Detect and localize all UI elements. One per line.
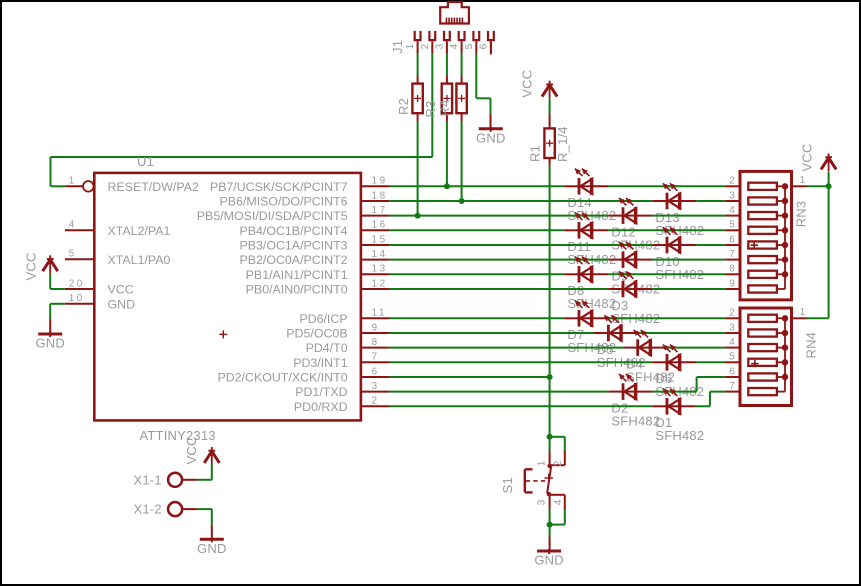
D2 name label bbox=[611, 400, 628, 415]
svg-text:VCC: VCC bbox=[184, 436, 199, 464]
junction PD2/S1 net bbox=[547, 374, 553, 380]
wire row D1 left bbox=[390, 405, 653, 407]
RN3 pin 3 stub bbox=[726, 200, 740, 202]
wire D1 cathode pin bbox=[679, 405, 696, 407]
RN4 internal junction 5 bbox=[782, 359, 788, 365]
RN3 pin number 3 bbox=[729, 190, 735, 201]
S1 lever bbox=[547, 464, 552, 497]
D2 value SFH482 bbox=[611, 413, 660, 428]
U1 pin 17 number bbox=[372, 205, 388, 216]
wire row D4 right bbox=[667, 347, 726, 349]
U1 pin label PB7/UCSK/SCK/PCINT7 bbox=[210, 180, 348, 194]
svg-text:PB0/AIN0/PCINT0: PB0/AIN0/PCINT0 bbox=[246, 283, 348, 297]
U1 pin label PB6/MISO/DO/PCINT6 bbox=[220, 195, 348, 209]
LED D7 bbox=[575, 301, 593, 327]
RN4 resistor element 7 bbox=[748, 388, 785, 395]
svg-text:17: 17 bbox=[372, 205, 388, 216]
U1 pin 8 number bbox=[372, 337, 380, 348]
RN4 pin number 1 bbox=[800, 307, 806, 318]
svg-text:3: 3 bbox=[537, 499, 548, 505]
D14 value SFH482 bbox=[567, 208, 616, 223]
D3 value SFH482 bbox=[611, 311, 660, 326]
RN3 internal junction 3 bbox=[782, 198, 788, 204]
J1 pin number 2 bbox=[420, 43, 431, 49]
RN4 internal junction 2 bbox=[782, 315, 788, 321]
U1 pin 15 stub bbox=[361, 244, 390, 246]
wire S1 bottom jog bbox=[550, 510, 565, 525]
U1 pin 19 number bbox=[372, 176, 388, 187]
svg-text:U1: U1 bbox=[137, 154, 154, 169]
U1 pin 2 number bbox=[372, 396, 380, 407]
J1 pin number 4 bbox=[449, 43, 460, 49]
svg-text:PD3/INT1: PD3/INT1 bbox=[293, 356, 348, 370]
U1 pin 14 number bbox=[372, 249, 388, 260]
U1 pin 16 stub bbox=[361, 229, 390, 231]
wire D4 anode pin bbox=[623, 347, 636, 349]
D1 name label bbox=[655, 415, 672, 430]
svg-text:16: 16 bbox=[372, 220, 388, 231]
S1 pin 2 bbox=[550, 451, 565, 466]
wire row D6 right bbox=[696, 361, 725, 363]
U1 pin 20 number bbox=[69, 278, 85, 289]
U1 pin label PD6/ICP bbox=[299, 312, 347, 326]
wire J1-5 to GND bbox=[476, 53, 490, 127]
U1 pin 14 stub bbox=[361, 259, 390, 261]
RN3 pin 4 stub bbox=[726, 215, 740, 217]
wire RN4 pin1 to VCC rail bbox=[807, 186, 829, 318]
U1 pin label GND bbox=[108, 297, 136, 311]
svg-text:4: 4 bbox=[69, 220, 77, 231]
RN3 resistor element 9 bbox=[748, 285, 785, 292]
wire D2 to RN4 pin6 staircase bbox=[652, 377, 725, 392]
svg-text:4: 4 bbox=[729, 337, 735, 348]
U1 pin 13 number bbox=[372, 264, 388, 275]
wire D1 anode pin bbox=[652, 405, 665, 407]
U1 pin label PB2/OC0A/PCINT2 bbox=[239, 253, 347, 267]
svg-text:1: 1 bbox=[69, 176, 77, 187]
J1-6 stub bbox=[490, 42, 492, 55]
svg-text:3: 3 bbox=[372, 381, 380, 392]
wire row D11 right bbox=[608, 229, 725, 231]
U1 pin label PB0/AIN0/PCINT0 bbox=[246, 283, 348, 297]
wire row D5 left bbox=[390, 332, 594, 334]
RN3 pin number 5 bbox=[729, 220, 735, 231]
S1 name label bbox=[500, 477, 515, 493]
RN4 pin 4 stub bbox=[726, 347, 740, 349]
RN4 resistor element 6 bbox=[748, 373, 785, 380]
RN4 pin number 4 bbox=[729, 337, 735, 348]
RN3 pin 8 stub bbox=[726, 273, 740, 275]
wire row D4 left bbox=[390, 347, 623, 349]
LED D8 bbox=[575, 257, 593, 283]
svg-text:PD1/TXD: PD1/TXD bbox=[295, 385, 347, 399]
junction R2/PB5 bbox=[415, 213, 421, 219]
svg-text:3: 3 bbox=[729, 190, 735, 201]
D10 value SFH482 bbox=[655, 267, 704, 282]
U1 pin label PD5/OC0B bbox=[286, 327, 347, 341]
S1 pin 3 bbox=[550, 495, 565, 510]
svg-text:R2: R2 bbox=[396, 98, 411, 115]
D4 value SFH482 bbox=[626, 369, 675, 384]
connector J1 jack symbol bbox=[440, 2, 469, 24]
wire row D7 left bbox=[390, 317, 565, 319]
svg-text:1: 1 bbox=[405, 43, 416, 49]
wire D1 to RN4 pin7 staircase bbox=[696, 392, 726, 407]
svg-text:7: 7 bbox=[372, 352, 380, 363]
J1 pin number 5 bbox=[464, 43, 475, 49]
svg-text:SFH482: SFH482 bbox=[611, 413, 660, 428]
J1 pin number 3 bbox=[434, 43, 445, 49]
wire X1-1 to VCC bbox=[197, 465, 212, 480]
svg-text:VCC: VCC bbox=[108, 283, 134, 297]
svg-text:6: 6 bbox=[729, 366, 735, 377]
wire row D12 left bbox=[390, 215, 609, 217]
svg-text:13: 13 bbox=[372, 264, 388, 275]
U1 origin cross bbox=[219, 330, 227, 338]
junction R3/PB7 bbox=[444, 183, 450, 189]
U1 pin 19 stub bbox=[361, 185, 390, 187]
R2 label bbox=[396, 98, 411, 115]
svg-text:6: 6 bbox=[478, 43, 489, 49]
wire row D12 right bbox=[652, 215, 725, 217]
RN4 pin number 5 bbox=[729, 352, 735, 363]
power VCC (R1) bbox=[542, 81, 557, 99]
RN3 internal junction 4 bbox=[782, 212, 788, 218]
VCC text (right) bbox=[800, 143, 815, 171]
svg-text:6: 6 bbox=[372, 366, 380, 377]
LED D1 bbox=[663, 389, 681, 415]
LED D13 bbox=[663, 183, 681, 209]
wire VCC to pin20 bbox=[50, 273, 65, 289]
wire D2 cathode pin bbox=[635, 391, 652, 393]
resistor R1 bbox=[544, 114, 554, 165]
R4 label bbox=[437, 99, 452, 116]
svg-text:GND: GND bbox=[476, 130, 506, 145]
wire row D5 right bbox=[638, 332, 726, 334]
svg-text:PB5/MOSI/DI/SDA/PCINT5: PB5/MOSI/DI/SDA/PCINT5 bbox=[197, 209, 348, 223]
RN3 common rail bbox=[784, 186, 786, 289]
wire D12 cathode pin bbox=[635, 215, 652, 217]
D12 name label bbox=[611, 224, 635, 239]
svg-text:4: 4 bbox=[449, 43, 460, 49]
svg-text:S1: S1 bbox=[500, 477, 515, 493]
wire VCC to R1 bbox=[549, 98, 551, 114]
U1 pin 7 number bbox=[372, 352, 380, 363]
wire D5 cathode pin bbox=[621, 332, 638, 334]
RN3 resistor element 7 bbox=[748, 256, 785, 263]
svg-text:4: 4 bbox=[729, 205, 735, 216]
RN3 pin number 2 bbox=[729, 176, 735, 187]
RN3 pin 7 stub bbox=[726, 259, 740, 261]
R1 value R_1/4 bbox=[555, 126, 570, 162]
svg-text:XTAL2/PA1: XTAL2/PA1 bbox=[108, 224, 171, 238]
svg-text:9: 9 bbox=[729, 278, 735, 289]
wire RN3 pin1 to VCC bbox=[807, 185, 829, 187]
wire D6 cathode pin bbox=[679, 361, 696, 363]
svg-text:11: 11 bbox=[372, 308, 387, 319]
svg-text:J1: J1 bbox=[390, 40, 405, 54]
svg-text:2: 2 bbox=[729, 308, 735, 319]
svg-text:RN4: RN4 bbox=[804, 332, 819, 359]
wire row D6 left bbox=[390, 361, 653, 363]
svg-text:7: 7 bbox=[729, 249, 735, 260]
RN4 pin number 3 bbox=[729, 322, 735, 333]
wire R1 to S1 (long vertical) bbox=[549, 165, 551, 437]
svg-text:2: 2 bbox=[420, 43, 431, 49]
wire row D9 right bbox=[652, 259, 725, 261]
RN3 internal junction 2 bbox=[782, 183, 788, 189]
resistor network RN4 box bbox=[740, 308, 792, 406]
RN3 resistor element 2 bbox=[748, 183, 785, 190]
LED D6 bbox=[663, 345, 681, 371]
svg-text:PB4/OC1B/PCINT4: PB4/OC1B/PCINT4 bbox=[239, 224, 347, 238]
svg-text:2: 2 bbox=[553, 460, 564, 466]
RN4 pin 3 stub bbox=[726, 332, 740, 334]
RN4 resistor element 2 bbox=[748, 315, 785, 322]
wire D6 anode pin bbox=[652, 361, 665, 363]
S1 pin 4 bbox=[564, 495, 566, 510]
U1 pin label VCC bbox=[108, 283, 134, 297]
wire D9 anode pin bbox=[608, 259, 621, 261]
svg-text:19: 19 bbox=[372, 176, 388, 187]
wire S1 top jog bbox=[550, 437, 565, 451]
svg-text:R_1/4: R_1/4 bbox=[555, 126, 570, 162]
RN4 resistor element 4 bbox=[748, 344, 785, 351]
D8 value SFH482 bbox=[567, 296, 616, 311]
RN4 pin 6 stub bbox=[726, 376, 740, 378]
resistor R4 bbox=[456, 76, 466, 121]
U1 pin 2 stub bbox=[361, 405, 390, 407]
RN3 pin 5 stub bbox=[726, 229, 740, 231]
LED D14 bbox=[575, 169, 593, 195]
wire R4 to PB6 row bbox=[461, 121, 463, 201]
wire row D13 left bbox=[390, 200, 653, 202]
J1 pin number 6 bbox=[478, 43, 489, 49]
U1 pin 1 stub with inversion bubble bbox=[65, 181, 94, 192]
D9 value SFH482 bbox=[611, 281, 660, 296]
RN3 internal junction 5 bbox=[782, 227, 788, 233]
D13 name label bbox=[655, 210, 679, 225]
junction S1 top bbox=[547, 434, 553, 440]
svg-text:5: 5 bbox=[729, 352, 735, 363]
D10 name label bbox=[655, 254, 679, 269]
U1 pin 10 number bbox=[69, 293, 85, 304]
wire row D3 left bbox=[390, 288, 609, 290]
RN3 pin 6 stub bbox=[726, 244, 740, 246]
wire D10 cathode pin bbox=[679, 244, 696, 246]
wire D14 anode pin bbox=[564, 185, 577, 187]
D7 name label bbox=[567, 327, 584, 342]
wire D13 anode pin bbox=[652, 200, 665, 202]
connector J1 pin 4 bbox=[459, 31, 465, 54]
RN3 internal junction 8 bbox=[782, 271, 788, 277]
wire row D14 left bbox=[390, 185, 565, 187]
svg-text:12: 12 bbox=[372, 278, 388, 289]
svg-text:PB3/OC1A/PCINT3: PB3/OC1A/PCINT3 bbox=[239, 239, 347, 253]
pad X1-2 bbox=[168, 502, 197, 516]
svg-text:PD4/T0: PD4/T0 bbox=[306, 341, 348, 355]
RN3 resistor element 3 bbox=[748, 197, 785, 204]
wire D8 cathode pin bbox=[591, 273, 608, 275]
svg-text:PB2/OC0A/PCINT2: PB2/OC0A/PCINT2 bbox=[239, 253, 347, 267]
wire row D11 left bbox=[390, 229, 565, 231]
D14 name label bbox=[567, 195, 591, 210]
D8 name label bbox=[567, 283, 584, 298]
RN4 resistor element 3 bbox=[748, 329, 785, 336]
U1 pin 12 number bbox=[372, 278, 388, 289]
RN3 pin number 4 bbox=[729, 205, 735, 216]
connector J1 pin 5 bbox=[473, 31, 479, 54]
LED D2 bbox=[619, 374, 637, 400]
resistor network RN3 box bbox=[740, 171, 792, 300]
RN3 pin number 6 bbox=[729, 234, 735, 245]
R3 label bbox=[423, 100, 438, 117]
D4 name label bbox=[626, 356, 643, 371]
wire row D10 left bbox=[390, 244, 653, 246]
RN3 internal junction 6 bbox=[782, 242, 788, 248]
svg-text:PB6/MISO/DO/PCINT6: PB6/MISO/DO/PCINT6 bbox=[220, 195, 348, 209]
svg-text:10: 10 bbox=[69, 293, 85, 304]
U1 pin 10 stub bbox=[65, 303, 94, 305]
RN3 pin number 7 bbox=[729, 249, 735, 260]
U1 pin 4 number bbox=[69, 220, 77, 231]
wire S1 to GND bbox=[549, 525, 551, 550]
VCC text (R1) bbox=[520, 70, 535, 98]
U1 pin label PD4/T0 bbox=[306, 341, 348, 355]
U1 pin 3 stub bbox=[361, 391, 390, 393]
RN4 pin 7 stub bbox=[726, 391, 740, 393]
svg-text:7: 7 bbox=[729, 381, 735, 392]
wire RESET net (pin1 to J1-2) bbox=[51, 157, 433, 186]
RN3 internal junction 7 bbox=[782, 256, 788, 262]
ground GND (J1 pin5) bbox=[476, 127, 506, 146]
VCC text (X1-1) bbox=[184, 436, 199, 464]
D5 value SFH482 bbox=[597, 355, 646, 370]
wire row D8 left bbox=[390, 273, 565, 275]
D5 name label bbox=[597, 342, 614, 357]
wire row D8 right bbox=[608, 273, 725, 275]
svg-text:5: 5 bbox=[464, 43, 475, 49]
connector J1 pin 1 bbox=[415, 31, 421, 54]
S1 pin number 4 bbox=[553, 499, 564, 505]
D6 value SFH482 bbox=[655, 384, 704, 399]
svg-text:R3: R3 bbox=[423, 100, 438, 117]
U1 pin 17 stub bbox=[361, 215, 390, 217]
svg-text:SFH482: SFH482 bbox=[655, 428, 704, 443]
RN3 name label bbox=[793, 201, 808, 228]
U1 pin 13 stub bbox=[361, 273, 390, 275]
wire row D7 right bbox=[608, 317, 725, 319]
U1 pin label XTAL2/PA1 bbox=[108, 224, 171, 238]
ground GND (U1 pin10) bbox=[35, 332, 65, 351]
RN4 internal junction 3 bbox=[782, 330, 788, 336]
svg-text:1: 1 bbox=[800, 175, 806, 186]
VCC text (left) bbox=[23, 252, 38, 280]
wire row PD2 to S1 junction bbox=[390, 376, 550, 378]
U1 pin 8 stub bbox=[361, 347, 390, 349]
U1 pin 5 stub bbox=[65, 258, 94, 260]
svg-text:SFH482: SFH482 bbox=[567, 296, 616, 311]
LED D11 bbox=[575, 213, 593, 239]
X1-2 label bbox=[134, 502, 162, 517]
svg-text:2: 2 bbox=[729, 176, 735, 187]
svg-text:3: 3 bbox=[434, 43, 445, 49]
RN4 internal junction 4 bbox=[782, 344, 788, 350]
U1 pin 7 stub bbox=[361, 361, 390, 363]
svg-text:9: 9 bbox=[372, 322, 380, 333]
RN4 resistor element 5 bbox=[748, 359, 785, 366]
U1 pin 12 stub bbox=[361, 288, 390, 290]
RN3 pin 9 stub bbox=[726, 288, 740, 290]
U1 pin 6 number bbox=[372, 366, 380, 377]
RN4 common rail bbox=[784, 318, 786, 391]
wire row D2 left bbox=[390, 391, 609, 393]
LED D5 bbox=[604, 315, 622, 341]
ground GND (S1) bbox=[534, 549, 564, 568]
RN3 pin 1 stub bbox=[792, 185, 807, 187]
U1 pin label PD1/TXD bbox=[295, 385, 347, 399]
wire D4 cathode pin bbox=[650, 347, 667, 349]
wire J1-4 to R4 bbox=[461, 53, 463, 76]
U1 pin 9 number bbox=[372, 322, 380, 333]
wire VCC down to junction bbox=[828, 172, 830, 187]
svg-text:VCC: VCC bbox=[23, 252, 38, 280]
pad X1-1 bbox=[168, 473, 197, 487]
S1 pin number 2 bbox=[553, 460, 564, 466]
svg-text:1: 1 bbox=[800, 307, 806, 318]
RN3 resistor element 5 bbox=[748, 227, 785, 234]
svg-text:RESET/DW/PA2: RESET/DW/PA2 bbox=[108, 180, 199, 194]
connector J1 pin 3 bbox=[444, 31, 450, 54]
junction S1 bottom bbox=[547, 522, 553, 528]
LED D10 bbox=[663, 227, 681, 253]
U1 value ATTINY2313 bbox=[140, 428, 216, 443]
U1 pin 11 number bbox=[372, 308, 387, 319]
IC U1 ATTINY2313 box bbox=[94, 173, 361, 421]
RN3 origin cross bbox=[751, 242, 758, 249]
LED D3 bbox=[619, 271, 637, 297]
svg-text:R4: R4 bbox=[437, 99, 452, 116]
junction R4/PB6 bbox=[459, 198, 465, 204]
wire D12 anode pin bbox=[608, 215, 621, 217]
svg-text:XTAL1/PA0: XTAL1/PA0 bbox=[108, 253, 171, 267]
D9 name label bbox=[611, 268, 628, 283]
svg-text:6: 6 bbox=[729, 234, 735, 245]
svg-text:2: 2 bbox=[372, 396, 380, 407]
junction VCC/RN3/RN4 bbox=[826, 183, 832, 189]
U1 pin 1 number bbox=[69, 176, 77, 187]
svg-text:15: 15 bbox=[372, 234, 388, 245]
RN3 resistor element 8 bbox=[748, 271, 785, 278]
svg-text:PD2/CKOUT/XCK/INT0: PD2/CKOUT/XCK/INT0 bbox=[217, 371, 347, 385]
svg-text:X1-2: X1-2 bbox=[134, 502, 162, 517]
U1 pin label XTAL1/PA0 bbox=[108, 253, 171, 267]
U1 pin label PB3/OC1A/PCINT3 bbox=[239, 239, 347, 253]
wire J1-1 to R2 bbox=[417, 53, 419, 76]
wire D14 cathode pin bbox=[591, 185, 608, 187]
D1 value SFH482 bbox=[655, 428, 704, 443]
J1 name label bbox=[390, 40, 405, 54]
wire R3 to PB7 row bbox=[446, 121, 448, 186]
S1 pin number 1 bbox=[537, 460, 548, 466]
RN4 origin cross bbox=[751, 360, 758, 367]
X1-1 label bbox=[134, 472, 162, 487]
wire row D14 right bbox=[608, 185, 725, 187]
wire row D3 right bbox=[652, 288, 725, 290]
resistor R2 bbox=[412, 76, 422, 121]
U1 pin label PB5/MOSI/DI/SDA/PCINT5 bbox=[197, 209, 348, 223]
LED D9 bbox=[619, 242, 637, 268]
